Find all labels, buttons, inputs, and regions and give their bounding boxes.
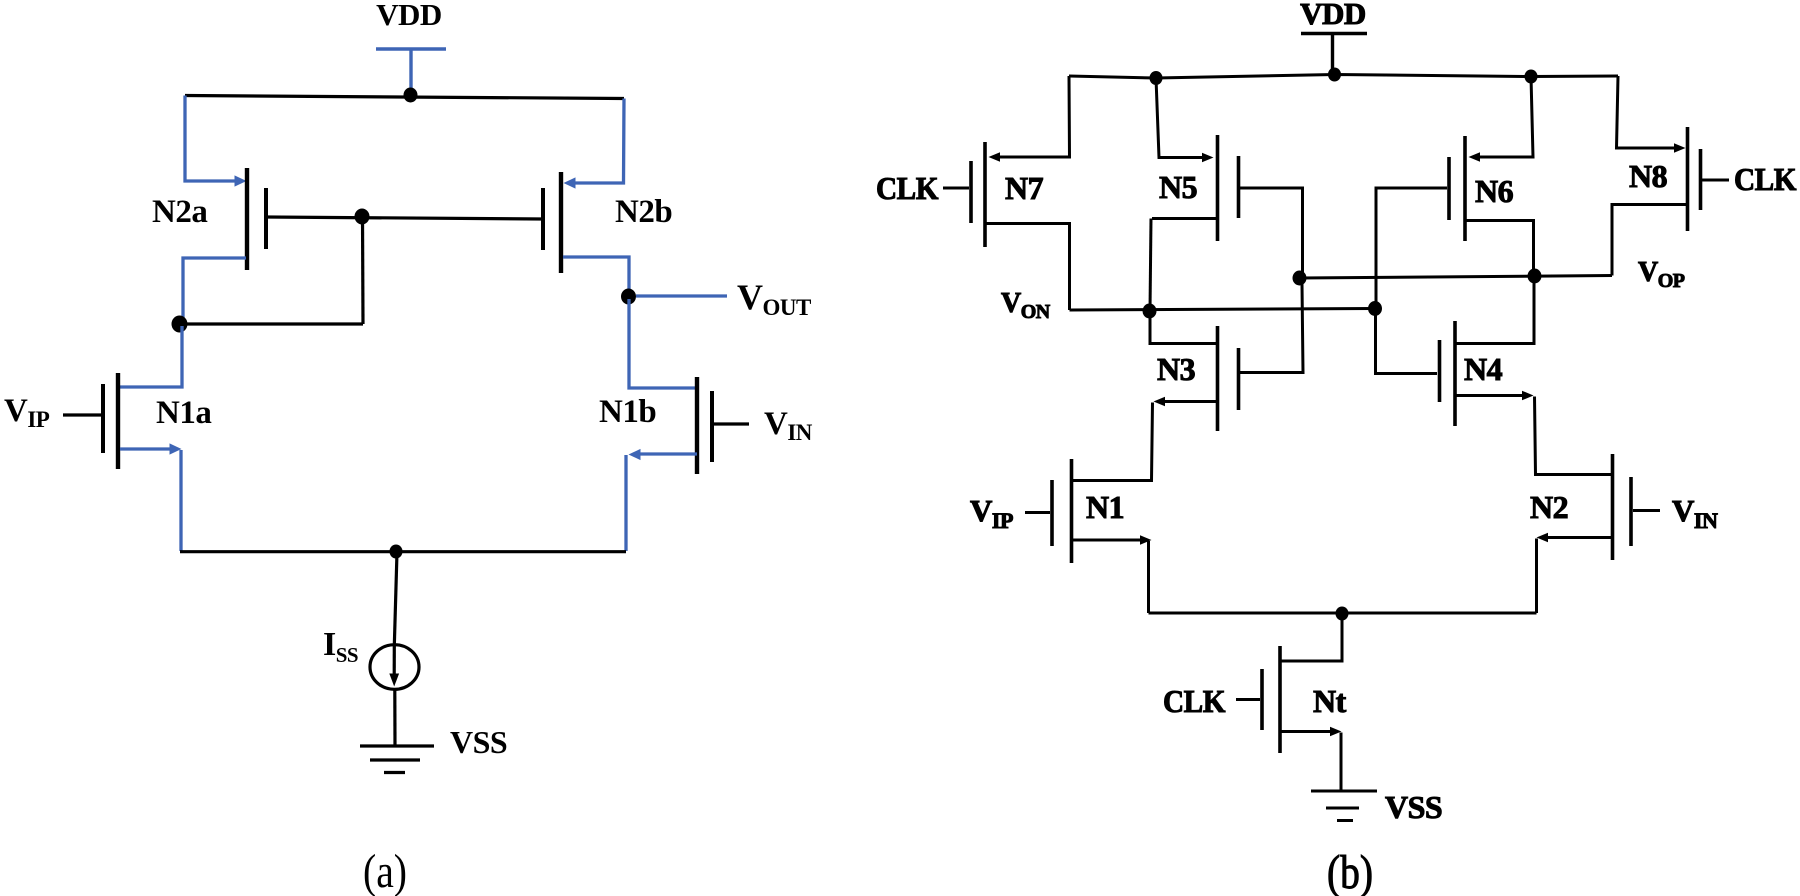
svg-text:N4: N4 <box>1464 351 1503 387</box>
wire: node A to N1a drain (blue) <box>120 326 182 387</box>
svg-text:VON: VON <box>1001 288 1051 323</box>
wire: tail rail (b) <box>1149 612 1537 615</box>
node VOUT <box>621 289 636 305</box>
wire: VIP gate lead (b) <box>1025 511 1050 514</box>
wire: N2a source to node A (blue) <box>183 258 246 322</box>
wire: N7 source to VON <box>985 224 1070 311</box>
svg-text:VIP: VIP <box>970 493 1013 533</box>
arrowhead into N6 drain <box>1469 152 1481 162</box>
wire: VOUT node to N1b drain (blue) <box>629 299 696 388</box>
node A (N2a source / N1a drain) <box>172 316 188 333</box>
wire: N2 source to tail (arrow) <box>1545 536 1612 539</box>
svg-text:N5: N5 <box>1159 169 1197 205</box>
ground VSS (a) <box>360 746 434 773</box>
node: VON right end / N6 gate / N4 gate <box>1368 301 1382 316</box>
arrowhead into N7 drain <box>989 152 1001 162</box>
wire: gate link N2a to N2b <box>266 217 543 219</box>
svg-text:N6: N6 <box>1475 173 1514 209</box>
transistor N1b <box>697 377 712 474</box>
svg-text:N1: N1 <box>1086 489 1124 525</box>
svg-text:CLK: CLK <box>1163 683 1226 719</box>
wire: node A horizontal link <box>179 322 363 325</box>
wire: VOP node down to N3 gate <box>1240 284 1303 373</box>
svg-text:VIN: VIN <box>764 406 813 445</box>
node: rail junction N6 branch <box>1525 70 1538 84</box>
wire: N1a source to tail (blue, arrow) <box>120 447 172 450</box>
transistor Nt <box>1262 646 1280 753</box>
wire: top rail (a) <box>185 96 624 99</box>
wire: VON rail <box>1070 309 1376 311</box>
VDD supply symbol (a) <box>376 49 446 94</box>
svg-text:N7: N7 <box>1005 170 1044 206</box>
wire: rail right end to N2b drain (blue) <box>572 99 624 184</box>
wire: N3 source to N1 drain (arrow) <box>1162 400 1217 403</box>
wire: N4 source to N2 drain (arrow) <box>1455 394 1525 397</box>
wire: N8 source down to VOP right end <box>1612 205 1687 276</box>
wire: CLK gate lead N8 <box>1702 179 1729 182</box>
transistor N3 <box>1218 326 1239 431</box>
svg-text:(a): (a) <box>363 845 407 896</box>
ground VSS (b) <box>1311 791 1377 821</box>
wire: N1 source to tail (arrow) <box>1072 539 1140 542</box>
wire: VIN gate lead <box>713 422 749 425</box>
wire: VIP gate lead <box>63 413 101 416</box>
svg-text:N3: N3 <box>1157 351 1195 387</box>
arrowhead into N5 drain <box>1202 153 1214 163</box>
wire: CLK gate lead N7 <box>943 187 969 190</box>
svg-text:CLK: CLK <box>1734 161 1797 197</box>
wire: N5 gate over to VOP column <box>1240 188 1303 277</box>
transistor N2b <box>543 172 561 273</box>
wire: tail node to current source <box>394 552 397 646</box>
svg-text:VIN: VIN <box>1672 493 1718 533</box>
wire: gate junction down to node A link <box>361 216 365 324</box>
wire: rail to N6 drain <box>1477 77 1533 158</box>
node: VON / N5 source / N3 drain <box>1143 304 1157 319</box>
svg-text:VSS: VSS <box>450 724 507 760</box>
svg-text:Nt: Nt <box>1313 683 1347 719</box>
svg-text:ISS: ISS <box>323 626 358 667</box>
svg-text:VIP: VIP <box>4 393 50 432</box>
node: rail junction VDD stem <box>1328 68 1341 82</box>
wire: N5 source down to VON node <box>1152 217 1217 220</box>
svg-text:VSS: VSS <box>1385 789 1442 825</box>
wire: N6 gate over to VON column <box>1376 188 1447 302</box>
svg-text:VOUT: VOUT <box>737 277 811 320</box>
wire: rail left end down to N7 drain <box>997 76 1070 157</box>
svg-text:N2b: N2b <box>615 194 672 230</box>
svg-text:VOP: VOP <box>1638 257 1685 292</box>
node: VDD rail junction (a) <box>404 88 418 103</box>
wire: tail node down to Nt drain <box>1281 617 1342 661</box>
node: tail junction (a) <box>390 545 403 559</box>
svg-text:VDD: VDD <box>1300 0 1366 31</box>
arrowhead into N8 drain <box>1674 143 1686 153</box>
wire: top rail (b) <box>1069 75 1618 79</box>
wire: Nt source to ground (arrow) <box>1280 730 1330 733</box>
wire: VON node down to N4 gate <box>1376 315 1438 374</box>
transistor N4 <box>1440 321 1456 426</box>
transistor N1a <box>103 373 118 469</box>
wire: N1b source to tail (blue, arrow) <box>638 452 697 455</box>
wire: current source to ground <box>393 690 396 746</box>
VDD supply symbol (b) <box>1301 34 1367 75</box>
wire: VOP rail <box>1299 276 1612 279</box>
svg-text:N2a: N2a <box>152 194 207 230</box>
svg-text:N1b: N1b <box>599 394 656 430</box>
arrowhead into N2b drain <box>564 177 576 188</box>
wire: N6 source down to VOP node <box>1465 221 1534 277</box>
svg-text:N1a: N1a <box>156 395 211 431</box>
wire: CLK gate lead Nt <box>1236 698 1260 701</box>
node: gate link junction <box>355 209 370 225</box>
node: VOP / N6 source / N4 drain <box>1528 269 1542 284</box>
current source ISS <box>370 645 419 690</box>
svg-text:VDD: VDD <box>376 0 442 32</box>
svg-text:CLK: CLK <box>876 170 939 206</box>
wire: VOUT lead (blue) <box>636 294 727 297</box>
arrowhead into N2a drain <box>235 175 247 186</box>
wire: rail to N5 drain <box>1156 78 1205 158</box>
wire: rail right end down to N8 drain <box>1617 76 1678 148</box>
wire: tail rail (a) <box>180 550 626 553</box>
wire: VON node down to N3 drain <box>1150 315 1216 344</box>
transistor N2a <box>247 168 266 270</box>
transistor N1 <box>1052 459 1072 563</box>
wire: N2b source down to VOUT node (blue) <box>563 257 629 294</box>
transistor N8 <box>1688 127 1701 231</box>
node: tail junction (b) <box>1336 607 1349 621</box>
wire: rail left end to N2a drain (blue) <box>185 96 238 182</box>
transistor N7 <box>971 142 985 247</box>
transistor N5 <box>1218 135 1239 241</box>
svg-text:(b): (b) <box>1327 846 1373 896</box>
wire: VIN gate lead (b) <box>1633 509 1660 512</box>
wire: VOP node down to N4 drain <box>1456 283 1534 344</box>
svg-text:N8: N8 <box>1629 158 1667 194</box>
node: VOP / N5 gate / N3 gate <box>1293 271 1307 286</box>
node: rail junction N5 branch <box>1150 71 1163 85</box>
transistor N6 <box>1449 136 1465 241</box>
svg-text:N2: N2 <box>1530 489 1568 525</box>
transistor N2 <box>1613 454 1632 560</box>
